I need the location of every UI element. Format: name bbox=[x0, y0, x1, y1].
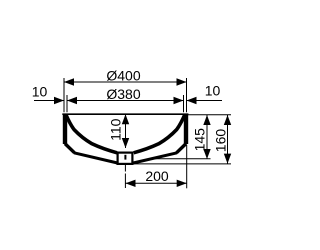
extension line outer-left bbox=[63, 78, 65, 112]
dimension 160 line bbox=[227, 115, 229, 164]
dimension 200 left arrow bbox=[126, 180, 136, 187]
bowl interior curve right bbox=[134, 115, 185, 153]
dimension Ø400 line bbox=[64, 81, 187, 83]
dimension Ø380 line bbox=[67, 100, 184, 102]
extension line 145 bottom bbox=[150, 158, 211, 160]
basin rim top line bbox=[62, 113, 188, 115]
dimension 160 top arrow bbox=[224, 115, 231, 125]
svg-text:10: 10 bbox=[205, 83, 221, 99]
dimension 200 line bbox=[126, 182, 187, 184]
dimension 145 bottom arrow bbox=[203, 149, 210, 159]
dimension 10 right arrow bbox=[187, 97, 197, 104]
dimension 110 line bbox=[125, 114, 127, 148]
svg-text:10: 10 bbox=[32, 84, 48, 100]
bowl interior curve left bbox=[66, 115, 117, 153]
svg-text:160: 160 bbox=[212, 129, 228, 153]
drain box bbox=[118, 153, 133, 164]
extension line 200 right vertical bbox=[186, 145, 188, 188]
basin outer wall right bbox=[184, 114, 188, 144]
basin foot left bbox=[65, 144, 75, 153]
basin foot right bbox=[177, 144, 187, 153]
svg-text:200: 200 bbox=[145, 168, 169, 184]
dimension 10 left arrow bbox=[54, 97, 64, 104]
svg-text:145: 145 bbox=[192, 128, 208, 152]
dimension 10 left line bbox=[34, 100, 64, 102]
svg-text:Ø380: Ø380 bbox=[106, 86, 140, 102]
extension line outer-right bbox=[186, 78, 188, 112]
dimension 160 bottom arrow bbox=[224, 154, 231, 164]
dimension 200 right arrow bbox=[177, 180, 187, 187]
dimension 145 line bbox=[206, 115, 208, 159]
drain center tick bbox=[124, 155, 126, 160]
extension line rim-right horizontal bbox=[188, 114, 231, 116]
dimension Ø380 right arrow bbox=[174, 97, 184, 104]
dimension Ø400 right arrow bbox=[177, 78, 187, 85]
basin outer wall left bbox=[63, 114, 67, 144]
dimension Ø380 left arrow bbox=[67, 97, 77, 104]
extension line 160 bottom bbox=[134, 163, 231, 165]
svg-text:110: 110 bbox=[107, 118, 123, 141]
dimension Ø400 left arrow bbox=[64, 78, 74, 85]
dimension 145 top arrow bbox=[203, 115, 210, 125]
basin underside right bbox=[133, 153, 177, 163]
dimension 110 bottom arrow bbox=[122, 138, 129, 148]
dimension 10 right line bbox=[187, 100, 223, 102]
basin underside left bbox=[74, 153, 118, 163]
extension line inner-right bbox=[183, 95, 185, 112]
svg-text:Ø400: Ø400 bbox=[106, 68, 140, 84]
centerline below drain bbox=[124, 165, 126, 188]
dimension 110 top arrow bbox=[122, 114, 129, 124]
extension line inner-left bbox=[66, 95, 68, 112]
